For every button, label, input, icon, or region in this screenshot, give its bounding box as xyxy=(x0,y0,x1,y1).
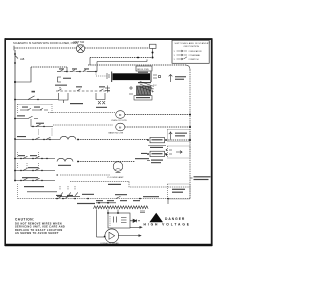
wire cycle light to bus xyxy=(125,114,190,116)
convection motor xyxy=(105,229,119,243)
row y126.5 xyxy=(31,123,53,128)
label below xx xyxy=(96,107,107,108)
limit switch box xyxy=(150,44,157,48)
legend row 1 xyxy=(174,50,202,53)
door lock box 1 xyxy=(150,137,165,142)
jog to y187 xyxy=(129,182,190,188)
terminal marks right of element xyxy=(153,75,161,78)
wire bake light to bus xyxy=(125,126,190,128)
lock box 3 label xyxy=(147,160,163,164)
marks right of clock top xyxy=(140,211,145,213)
clock inner drops xyxy=(108,210,118,214)
sensor text xyxy=(175,133,187,137)
drop x168 xyxy=(167,199,169,205)
infinite switch bracket right xyxy=(96,93,105,100)
selector text xyxy=(24,186,44,187)
door lock box 2 xyxy=(147,151,167,156)
cluster labels xyxy=(22,107,40,108)
svg-text:CONVECTION FAN: CONVECTION FAN xyxy=(100,242,119,245)
right bus vertical x190 xyxy=(189,70,191,199)
marks left of hatch box xyxy=(129,86,133,94)
lock box 2 left marks xyxy=(141,153,147,154)
dashed drop x38 xyxy=(38,130,40,136)
node x96 y71.5 xyxy=(95,71,97,73)
wire coil to lock box xyxy=(78,139,148,141)
node x78 y139.5 xyxy=(77,139,79,141)
corner curve to right bus xyxy=(186,65,190,70)
clock box marks xyxy=(110,216,127,226)
infinite sw label xyxy=(55,85,67,86)
bracket label xyxy=(63,78,71,79)
surface unit bus y91 xyxy=(56,90,110,92)
svg-text:SCHEMATIC IS SHOWN WITH DOOR C: SCHEMATIC IS SHOWN WITH DOOR CLOSED, OVE… xyxy=(13,41,78,45)
broil coil label xyxy=(58,165,71,166)
thermostat switch xyxy=(28,96,35,100)
sensor symbol xyxy=(169,132,172,140)
wire after lamp xyxy=(85,47,149,49)
clock box xyxy=(108,213,130,228)
danger triangle xyxy=(149,213,163,222)
sensor text right of bus xyxy=(190,176,211,180)
sheet border right xyxy=(211,38,213,246)
surface switch 1 xyxy=(58,87,62,91)
node x15 y54 xyxy=(14,53,16,55)
left terminal marks row2 xyxy=(105,86,110,93)
surface switch 3 xyxy=(99,86,105,91)
tod row y118.5 xyxy=(14,115,38,119)
wire branch y82 xyxy=(15,67,31,82)
wire y67 run xyxy=(31,66,67,68)
transformer label xyxy=(77,203,95,204)
dashed drop x52 xyxy=(51,129,53,136)
wire corner x90 xyxy=(89,58,91,66)
drop to row y126.5 xyxy=(30,119,32,127)
wire to oven cycle light xyxy=(48,112,115,114)
wire row y175 xyxy=(60,174,110,176)
sheet border top xyxy=(5,38,212,40)
svg-text:L&B: L&B xyxy=(20,59,25,61)
thermostat star mark xyxy=(32,91,36,93)
broil element body xyxy=(113,73,151,80)
arrow line mid xyxy=(130,226,143,229)
bake ind light xyxy=(116,123,125,131)
outline box below hatch xyxy=(134,96,152,100)
svg-text:BROIL 2585: BROIL 2585 xyxy=(137,69,149,71)
broil row y158.5 xyxy=(14,152,55,159)
surface sensor right xyxy=(169,75,173,83)
diode to right xyxy=(130,219,140,222)
oven light sw label xyxy=(108,184,121,185)
svg-text:2 SWITCH: 2 SWITCH xyxy=(189,59,199,61)
oven sensor box lower xyxy=(168,146,191,158)
thermal node b xyxy=(152,57,154,59)
legend row 3 xyxy=(174,57,199,61)
node right bus y140 xyxy=(189,139,191,141)
label above hatched box xyxy=(138,82,151,83)
broil element label box xyxy=(136,66,152,71)
wire x96 to element xyxy=(96,72,107,77)
wire y61 run xyxy=(97,60,147,72)
surface switch row y71.5 xyxy=(57,70,96,72)
node right bus y127 xyxy=(189,126,191,128)
node x78 y161.5 xyxy=(77,161,79,163)
wire drop x67 xyxy=(66,67,68,72)
bus labels above xyxy=(56,194,159,197)
door sw label xyxy=(135,158,149,159)
bake coil row y139.5 xyxy=(14,136,60,140)
feed labels xyxy=(96,200,140,201)
svg-text:M: M xyxy=(119,125,122,129)
corner left of bus xyxy=(17,184,19,199)
node clock box b xyxy=(117,212,119,214)
heater zigzag coil xyxy=(94,206,149,209)
tod box bottom right xyxy=(168,184,191,199)
node right bus y114.5 xyxy=(189,114,191,116)
L1 supply terminal xyxy=(14,46,17,51)
svg-text:BAKE IND LITE: BAKE IND LITE xyxy=(109,132,124,135)
svg-text:AS SHOWN TO AVOID SHORT: AS SHOWN TO AVOID SHORT xyxy=(15,232,59,235)
node clock box a xyxy=(107,212,109,214)
legend row 2 xyxy=(174,54,201,57)
svg-text:OFF POSITION: OFF POSITION xyxy=(184,46,200,48)
svg-text:SWITCHES ARE IN STANDBY: SWITCHES ARE IN STANDBY xyxy=(175,42,211,45)
wire y65 long run xyxy=(88,64,186,66)
marks at start y175 xyxy=(56,174,58,175)
lock label xyxy=(150,147,163,148)
wire vertical at x152.5 xyxy=(152,49,154,58)
clock feed line xyxy=(96,202,116,204)
clock feed nodes xyxy=(98,202,109,204)
xx marks xyxy=(98,101,105,104)
left bus vertical x15 xyxy=(14,50,16,181)
node x15 y82 xyxy=(14,81,16,83)
bus nodes xyxy=(56,198,169,200)
lock box 1 text xyxy=(152,139,163,140)
svg-text:LIMIT SW: LIMIT SW xyxy=(73,41,85,44)
surface sensor label xyxy=(175,76,186,80)
wire broil coil to door sw xyxy=(78,161,135,163)
thermal node a xyxy=(152,52,154,54)
node motor left xyxy=(104,236,106,238)
svg-text:HIGH VOLTAGE: HIGH VOLTAGE xyxy=(144,222,191,226)
row y181 xyxy=(14,177,55,181)
main bottom bus y198.5 xyxy=(18,198,191,200)
selector switch bank xyxy=(57,186,80,196)
bake relay coil xyxy=(60,136,76,139)
bracket oven sw xyxy=(58,77,62,82)
node y57 x138 xyxy=(137,57,139,59)
surface switch labels y69 xyxy=(59,68,89,69)
label under box xyxy=(138,72,148,73)
wire box1 to bus xyxy=(166,139,190,141)
wire L1 horizontal run xyxy=(17,47,77,49)
surface switch 2 xyxy=(76,86,82,91)
wire y181 mid xyxy=(70,181,129,183)
sensor 2 marks xyxy=(166,149,182,155)
svg-text:CAUTION:: CAUTION: xyxy=(15,218,35,222)
svg-text:P-1 OVEN LAMP: P-1 OVEN LAMP xyxy=(108,176,125,179)
oven thermostat row y99.5 xyxy=(15,99,58,101)
bus switches xyxy=(58,196,121,198)
tod box text xyxy=(172,189,185,193)
fuse lamp symbol xyxy=(76,45,84,53)
svg-text:M: M xyxy=(119,113,122,117)
node x67 y71.5 xyxy=(66,71,68,73)
wire motor left xyxy=(97,236,105,238)
neon label xyxy=(70,103,83,104)
selector labels xyxy=(82,194,94,195)
selector feed line xyxy=(27,191,57,193)
svg-text:OVEN CYC LITE: OVEN CYC LITE xyxy=(111,120,127,122)
sheet border bottom xyxy=(5,244,212,246)
lock linkage line xyxy=(148,145,166,147)
wire y57 run xyxy=(90,57,153,59)
element right cap xyxy=(150,72,152,83)
node x80 y71.5 xyxy=(79,71,81,73)
infinite switch bracket left xyxy=(59,93,69,103)
clock left drop xyxy=(96,210,98,238)
svg-text:2 THERMAL: 2 THERMAL xyxy=(189,54,201,57)
sheet border left xyxy=(4,38,6,246)
wire to bake light xyxy=(53,124,113,126)
cluster row components xyxy=(20,108,48,110)
element left cap xyxy=(111,72,113,83)
terminal marks left of element xyxy=(107,73,109,79)
hatched box below element xyxy=(137,81,154,95)
broil relay coil xyxy=(57,158,73,161)
node y99.5 xyxy=(14,99,16,101)
light row y170.5 xyxy=(14,163,55,171)
node x148 y140 xyxy=(147,139,149,141)
wire motor right arrow xyxy=(118,234,142,237)
surface row baseline xyxy=(57,71,96,73)
legend table box xyxy=(172,40,209,63)
node x15 y63 xyxy=(14,62,16,64)
svg-text:2 INDICATOR: 2 INDICATOR xyxy=(189,50,202,53)
oven sensor box upper xyxy=(168,130,191,142)
svg-text:DANGER: DANGER xyxy=(165,217,185,221)
clock capacitor bars xyxy=(114,217,117,223)
oven cycle light xyxy=(116,111,125,119)
L&B switch xyxy=(15,56,18,59)
node x166 y140 xyxy=(165,139,167,141)
cluster row y109 dashed box xyxy=(18,104,53,113)
oven lamp xyxy=(113,162,123,173)
node y99.5 b xyxy=(37,99,38,100)
